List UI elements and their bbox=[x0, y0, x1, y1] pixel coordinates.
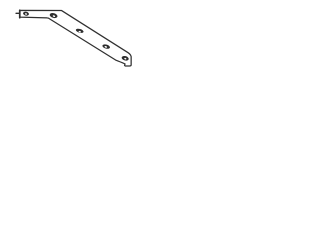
hole 3 bbox=[75, 28, 84, 34]
left end face bbox=[19, 10, 21, 18]
hole 5 bbox=[121, 55, 129, 61]
hole 2 bbox=[49, 12, 58, 19]
strap outline bbox=[20, 10, 131, 66]
strap (bent flat bracket with holes), isometric catalog drawing bbox=[0, 0, 150, 77]
hole 4 bbox=[102, 44, 111, 50]
left tab bbox=[16, 12, 19, 14]
hole 1 bbox=[23, 11, 30, 16]
